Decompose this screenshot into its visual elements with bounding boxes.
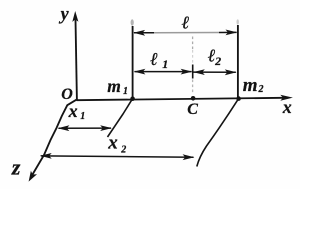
center of mass point C	[191, 96, 196, 101]
diagonal below m1	[108, 99, 133, 137]
diagonal below m2	[197, 99, 239, 167]
dimension x2 line	[40, 153, 195, 160]
grey smudge above m1 extension	[131, 19, 134, 25]
grey smudge above m2 extension	[237, 19, 239, 24]
dimension l1 line	[134, 69, 193, 75]
dimension l2 line	[193, 69, 237, 75]
mass point m2	[236, 96, 241, 101]
svg-text:z: z	[11, 155, 21, 180]
y-axis	[72, 11, 78, 100]
mass point m1	[130, 96, 135, 101]
svg-text:1: 1	[80, 111, 85, 122]
grey dashed line above C	[192, 37, 194, 51]
svg-text:C: C	[187, 101, 198, 118]
svg-text:y: y	[59, 4, 70, 24]
extension line above m1	[132, 26, 134, 99]
svg-text:ℓ: ℓ	[150, 49, 158, 69]
svg-text:x: x	[282, 97, 292, 117]
svg-text:x: x	[68, 101, 78, 121]
svg-text:m: m	[243, 75, 258, 96]
svg-text:1: 1	[162, 57, 168, 71]
svg-text:2: 2	[258, 84, 264, 95]
dimension l line	[133, 30, 237, 36]
extension line above m2	[237, 25, 239, 99]
svg-text:ℓ: ℓ	[182, 13, 190, 33]
svg-text:2: 2	[120, 144, 126, 155]
svg-text:1: 1	[123, 86, 128, 97]
dimension x1 line	[58, 125, 112, 131]
svg-text:m: m	[107, 76, 121, 96]
svg-text:x: x	[107, 133, 118, 154]
z-axis	[29, 100, 77, 182]
svg-text:2: 2	[214, 54, 221, 68]
tick at C between l1 and l2	[192, 65, 194, 79]
x-axis	[77, 95, 293, 101]
